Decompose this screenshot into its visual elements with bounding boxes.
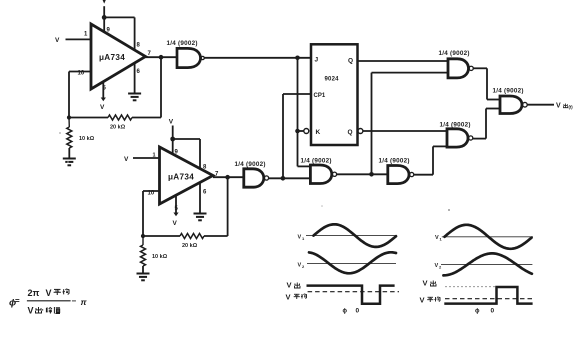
svg-text:1/4 (9002): 1/4 (9002) — [379, 158, 410, 165]
svg-text:CP1: CP1 — [314, 93, 326, 99]
svg-text:μA734: μA734 — [168, 173, 194, 182]
svg-text:V: V — [46, 288, 52, 298]
svg-text:V: V — [298, 263, 302, 269]
svg-text:1: 1 — [302, 236, 305, 241]
svg-text:10 kΩ: 10 kΩ — [152, 254, 168, 260]
svg-text:ϕ: ϕ — [475, 309, 480, 315]
svg-text:−: − — [72, 297, 77, 306]
svg-text:V: V — [423, 279, 428, 288]
svg-text:0: 0 — [491, 308, 495, 315]
svg-text:V: V — [287, 281, 292, 290]
svg-text:9024: 9024 — [325, 77, 340, 83]
svg-text:V: V — [286, 293, 291, 302]
svg-text:8: 8 — [203, 165, 207, 171]
svg-text:ϕ: ϕ — [343, 309, 348, 315]
svg-text:1/4 (9002): 1/4 (9002) — [493, 88, 524, 95]
svg-text:2: 2 — [302, 264, 305, 269]
svg-text:0: 0 — [356, 308, 360, 315]
svg-text:·: · — [42, 306, 45, 315]
svg-text:2: 2 — [439, 265, 442, 270]
svg-text:9: 9 — [107, 28, 111, 34]
svg-text:1/4 (9002): 1/4 (9002) — [301, 158, 332, 165]
svg-text:8: 8 — [137, 43, 141, 49]
svg-text:20 kΩ: 20 kΩ — [182, 243, 198, 249]
svg-text:J: J — [315, 57, 319, 64]
svg-text:6: 6 — [203, 190, 207, 196]
svg-text:V: V — [100, 104, 105, 111]
svg-text:9: 9 — [175, 150, 179, 156]
svg-text:V: V — [556, 103, 561, 110]
svg-text:6: 6 — [137, 69, 141, 75]
svg-text:1: 1 — [84, 32, 88, 38]
svg-text:V: V — [124, 156, 129, 163]
svg-text:20 kΩ: 20 kΩ — [110, 125, 126, 131]
svg-text:=: = — [15, 297, 20, 306]
svg-text:1/4 (9002): 1/4 (9002) — [439, 50, 470, 57]
svg-text:Q: Q — [348, 58, 353, 65]
svg-text:V: V — [435, 263, 439, 269]
svg-text:1/4 (9002): 1/4 (9002) — [167, 40, 198, 47]
svg-text:V: V — [435, 235, 439, 241]
svg-text:V: V — [298, 235, 302, 241]
svg-text:Q: Q — [348, 129, 353, 136]
svg-text:V: V — [173, 220, 178, 227]
svg-text:1/4 (9002): 1/4 (9002) — [235, 161, 266, 168]
svg-text:V: V — [169, 119, 174, 126]
svg-text:K: K — [316, 129, 321, 136]
svg-text:μA734: μA734 — [99, 53, 125, 62]
svg-text:V: V — [55, 37, 60, 44]
svg-text:π: π — [81, 297, 88, 307]
svg-text:10 kΩ: 10 kΩ — [79, 136, 95, 142]
svg-text:7: 7 — [148, 51, 152, 57]
svg-text:2π: 2π — [28, 288, 40, 298]
svg-text:V: V — [420, 296, 425, 305]
svg-text:(t): (t) — [569, 105, 574, 110]
svg-text:V: V — [28, 306, 34, 316]
